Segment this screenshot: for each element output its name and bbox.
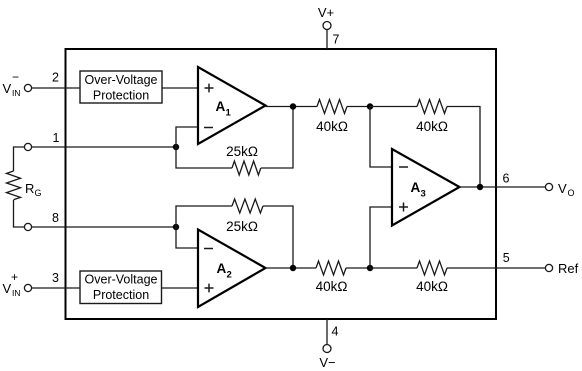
node A2 output xyxy=(290,265,296,271)
svg-text:−: − xyxy=(12,70,19,84)
svg-text:+: + xyxy=(11,270,18,284)
node A3 inverting feed xyxy=(367,103,373,109)
resistor 40k top-right xyxy=(416,100,448,135)
wire 40kBL to node xyxy=(346,267,370,269)
terminal pin 8 xyxy=(24,223,31,230)
wire A2 output xyxy=(266,267,317,269)
svg-text:V+: V+ xyxy=(318,5,334,20)
node A3 non-inverting feed xyxy=(367,265,373,271)
wire node up to A3 non-inverting input xyxy=(370,207,392,268)
wire RG loop top xyxy=(14,147,25,171)
resistor 25k R2 xyxy=(226,199,263,234)
node pin1/feedback junction xyxy=(173,144,179,150)
wire node to 40k top-right xyxy=(370,106,417,108)
terminal V+ xyxy=(318,5,334,30)
svg-text:6: 6 xyxy=(503,172,510,186)
terminal VO xyxy=(545,181,574,198)
wire node up to A1 inverting input xyxy=(176,127,198,147)
wire pin1 to node xyxy=(32,146,176,148)
op-amp A1 xyxy=(198,67,266,144)
op-amp A2 xyxy=(198,230,266,308)
svg-text:1: 1 xyxy=(226,108,232,119)
resistor 40k bottom-left xyxy=(316,261,348,294)
wire RG loop bottom xyxy=(14,200,25,227)
svg-text:40kΩ: 40kΩ xyxy=(416,119,448,134)
node pin8/feedback junction xyxy=(173,224,179,230)
svg-text:V: V xyxy=(3,81,12,96)
svg-text:40kΩ: 40kΩ xyxy=(316,279,348,294)
wire node down to 25k resistor R1 xyxy=(176,147,232,168)
resistor 25k R1 xyxy=(226,144,261,175)
terminal V- bottom xyxy=(319,345,335,371)
wire node up to 25k resistor R2 xyxy=(176,206,232,227)
wire V+ stub xyxy=(326,30,328,50)
wire A3 output to VO terminal xyxy=(460,186,546,188)
svg-text:R: R xyxy=(25,181,34,196)
resistor 40k top-left xyxy=(316,100,348,135)
terminal VIN- (pin 2) xyxy=(3,70,32,98)
svg-text:40kΩ: 40kΩ xyxy=(316,119,348,134)
wire node to 40k bottom-right xyxy=(370,267,417,269)
wire OVP2 to A2 + xyxy=(162,287,198,289)
svg-text:3: 3 xyxy=(421,189,426,200)
wire pin8 to node xyxy=(32,226,176,228)
svg-text:A: A xyxy=(217,261,227,276)
svg-text:3: 3 xyxy=(52,271,59,285)
svg-text:G: G xyxy=(35,188,42,198)
svg-text:40kΩ: 40kΩ xyxy=(416,279,448,294)
svg-text:2: 2 xyxy=(227,270,232,281)
terminal Ref xyxy=(545,261,578,276)
svg-text:5: 5 xyxy=(503,251,510,265)
svg-text:Protection: Protection xyxy=(93,89,149,103)
svg-text:Over-Voltage: Over-Voltage xyxy=(85,273,158,287)
wire 40kTL to node xyxy=(347,106,370,108)
svg-text:IN: IN xyxy=(12,288,21,298)
svg-text:2: 2 xyxy=(52,71,59,85)
svg-text:8: 8 xyxy=(52,211,59,225)
wire pin3 to OVP2 xyxy=(32,287,80,289)
svg-text:Over-Voltage: Over-Voltage xyxy=(85,73,158,87)
svg-text:Protection: Protection xyxy=(93,288,149,302)
terminal VIN+ (pin 3) xyxy=(3,270,32,298)
IC boundary box xyxy=(66,49,497,319)
wire A1 output xyxy=(266,106,318,108)
over-voltage protection box 2 xyxy=(80,271,162,304)
wire 40kTR to A3 output xyxy=(447,107,480,188)
svg-text:V: V xyxy=(558,181,567,196)
over-voltage protection box 1 xyxy=(80,71,162,103)
svg-text:25kΩ: 25kΩ xyxy=(226,144,258,159)
svg-text:1: 1 xyxy=(53,131,60,145)
op-amp A3 xyxy=(392,149,460,226)
wire 40kBR to Ref terminal xyxy=(447,267,545,269)
wire R2 to A2 output vertical xyxy=(263,206,293,268)
wire node down to A3 inverting input xyxy=(370,107,392,168)
svg-text:7: 7 xyxy=(333,33,340,47)
svg-text:A: A xyxy=(411,180,421,195)
svg-text:4: 4 xyxy=(332,325,339,339)
wire OVP1 to A1 + xyxy=(162,87,198,89)
node A1 output xyxy=(290,103,296,109)
wire R1 to A1 output vertical xyxy=(261,107,293,168)
svg-text:O: O xyxy=(568,188,575,198)
wire V- stub xyxy=(326,319,328,345)
wire node down to A2 inverting input xyxy=(176,227,198,248)
node A3 output xyxy=(477,184,483,190)
wire pin2 to OVP1 xyxy=(32,87,80,89)
resistor RG external xyxy=(7,171,42,200)
svg-text:A: A xyxy=(216,99,226,114)
resistor 40k bottom-right xyxy=(416,261,448,294)
svg-text:25kΩ: 25kΩ xyxy=(226,219,258,234)
svg-text:IN: IN xyxy=(12,88,21,98)
svg-text:Ref: Ref xyxy=(558,261,579,276)
terminal pin 1 xyxy=(24,143,31,150)
svg-text:V−: V− xyxy=(319,355,335,370)
